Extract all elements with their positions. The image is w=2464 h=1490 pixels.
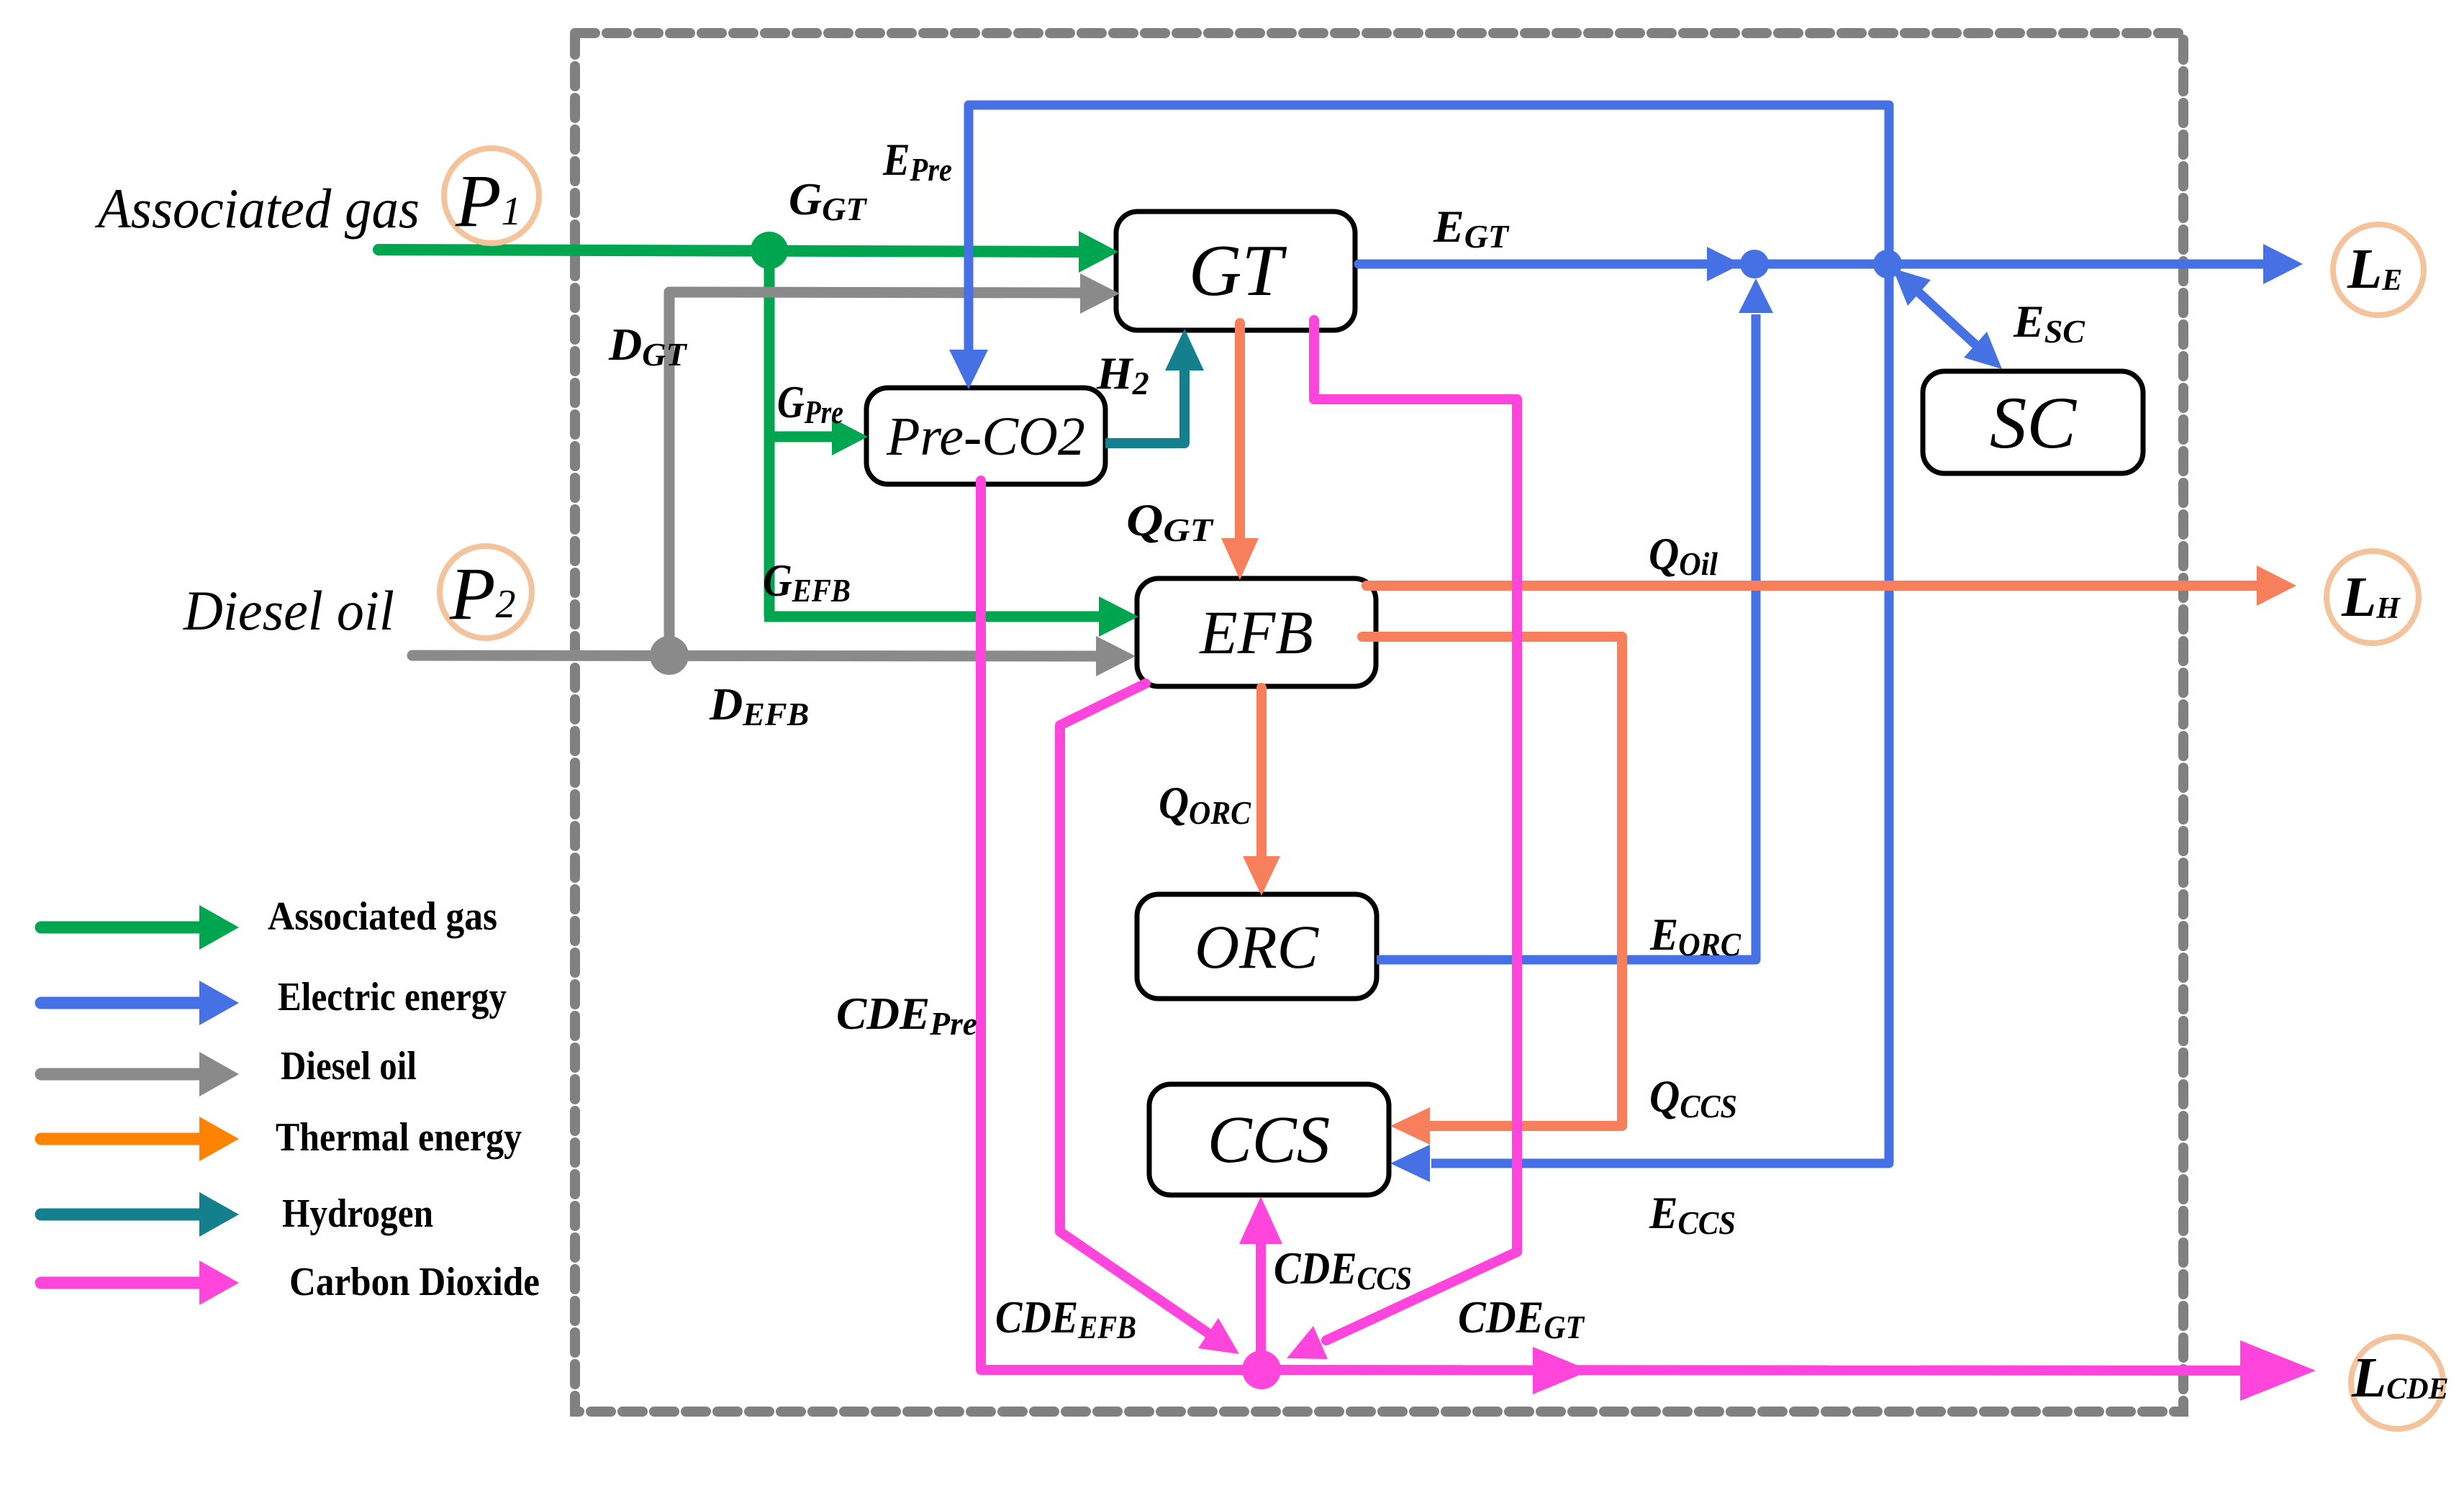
wire G_GT (associated gas main line) bbox=[379, 250, 1083, 252]
svg-text:Associated gas: Associated gas bbox=[94, 177, 420, 240]
wire G_EFB branch bbox=[764, 612, 1102, 622]
svg-text:Thermal energy: Thermal energy bbox=[276, 1115, 522, 1160]
svg-text:Diesel oil: Diesel oil bbox=[281, 1044, 417, 1089]
node junction dot on E bus 2 bbox=[1873, 250, 1902, 278]
wire E_SC double arrow bbox=[1911, 285, 1984, 353]
wire Q_ORC bbox=[1256, 688, 1267, 859]
legend arrow Hydrogen bbox=[41, 1209, 201, 1221]
svg-text:EFB: EFB bbox=[1198, 598, 1313, 667]
wire D (diesel oil main line) bbox=[412, 655, 1098, 656]
box SC shape bbox=[1923, 371, 2143, 473]
arrowhead G_EFB into EFB bbox=[1099, 596, 1138, 637]
wire CDE_EFB bbox=[1060, 683, 1218, 1340]
arrowhead CDE into L_CDE bbox=[2240, 1340, 2316, 1401]
arrowhead CDE_GT at junction bbox=[1287, 1326, 1328, 1359]
arrowhead G_Pre into Pre-CO2 bbox=[832, 418, 868, 455]
svg-text:ORC: ORC bbox=[1195, 912, 1320, 981]
node P2 circle bbox=[440, 546, 532, 638]
node L_CDE circle bbox=[2351, 1337, 2443, 1429]
node green junction bbox=[751, 232, 788, 269]
arrowhead E_CCS into CCS bbox=[1390, 1145, 1430, 1182]
box GT shape bbox=[1116, 212, 1355, 330]
svg-text:SC: SC bbox=[1990, 382, 2078, 464]
legend arrow Diesel oil bbox=[41, 1068, 201, 1081]
legend arrow Electric energy bbox=[41, 997, 201, 1009]
wire CDE_GT bbox=[1314, 320, 1517, 1340]
box Pre-CO2 shape bbox=[866, 388, 1105, 484]
arrowhead E_Pre into Pre-CO2 bbox=[949, 350, 988, 389]
node gray junction bbox=[650, 636, 689, 675]
wire E_GT bus bbox=[1359, 260, 2265, 269]
arrowhead E_ORC at junction bbox=[1739, 278, 1773, 313]
arrowhead green into GT bbox=[1079, 231, 1118, 273]
arrowhead Q_Oil into L_H bbox=[2257, 565, 2296, 606]
legend arrow Associated gas bbox=[41, 922, 201, 934]
svg-text:GT: GT bbox=[1189, 230, 1287, 312]
arrowhead Q_GT into EFB bbox=[1221, 538, 1259, 580]
wire E_ORC bbox=[1377, 314, 1756, 960]
box EFB shape bbox=[1137, 578, 1376, 686]
svg-text:Pre-CO2: Pre-CO2 bbox=[886, 406, 1085, 467]
wire H2 bbox=[1105, 369, 1185, 443]
svg-text:Associated gas: Associated gas bbox=[268, 894, 497, 939]
wire E_Pre (blue top feedback to Pre-CO2) bbox=[969, 105, 1889, 1163]
svg-text:Carbon Dioxide: Carbon Dioxide bbox=[289, 1260, 540, 1304]
arrowhead CDE mid bbox=[1533, 1347, 1590, 1394]
box ORC shape bbox=[1137, 894, 1377, 999]
wire green vertical branch bbox=[764, 251, 775, 617]
wire L_CDE exit bbox=[1262, 1370, 2247, 1371]
box CCS shape bbox=[1149, 1084, 1389, 1195]
node junction dot on E bus 1 bbox=[1740, 250, 1769, 278]
arrowhead CDE_CCS into CCS bbox=[1239, 1196, 1282, 1244]
svg-text:Hydrogen: Hydrogen bbox=[282, 1191, 433, 1236]
arrowhead CDE_EFB at junction bbox=[1198, 1318, 1239, 1354]
node P1 circle bbox=[444, 148, 539, 243]
wire Q_GT bbox=[1235, 323, 1245, 543]
legend arrow Carbon Dioxide bbox=[41, 1277, 201, 1289]
arrowhead E bus into L_E bbox=[2263, 244, 2303, 284]
wire CDE_Pre bbox=[981, 481, 1262, 1370]
node magenta junction bbox=[1242, 1350, 1281, 1389]
arrowhead E_GT at junction bbox=[1707, 247, 1741, 281]
arrowhead H2 into GT bbox=[1165, 329, 1204, 371]
wire Q_CCS bbox=[1362, 637, 1622, 1126]
arrowhead Q_CCS into CCS bbox=[1390, 1107, 1430, 1145]
wire CDE_CCS bbox=[1256, 1242, 1266, 1370]
svg-text:Diesel oil: Diesel oil bbox=[183, 579, 394, 642]
arrowhead Q_ORC into ORC bbox=[1243, 856, 1280, 896]
legend arrow Thermal energy bbox=[41, 1133, 201, 1145]
system boundary dashed border bbox=[575, 33, 2183, 1412]
wire Q_Oil bbox=[1367, 581, 2260, 591]
arrowhead gray into GT bbox=[1080, 273, 1120, 314]
wire G_Pre branch bbox=[769, 432, 835, 442]
wire D_GT bbox=[669, 292, 1084, 655]
arrowhead D_EFB into EFB bbox=[1096, 636, 1136, 676]
node L_H circle bbox=[2327, 551, 2419, 643]
svg-text:CCS: CCS bbox=[1208, 1103, 1331, 1177]
node L_E circle bbox=[2333, 224, 2424, 315]
svg-text:Electric energy: Electric energy bbox=[278, 975, 507, 1019]
